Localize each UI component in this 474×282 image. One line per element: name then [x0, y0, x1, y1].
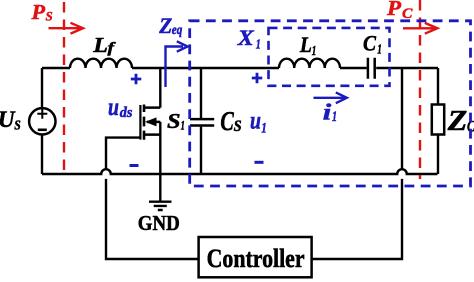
wire S1 drain lead	[159, 68, 161, 108]
svg-text:Controller: Controller	[207, 244, 305, 273]
svg-text:P: P	[386, 0, 401, 20]
label S1	[167, 109, 185, 133]
resistor ZC (load)	[432, 105, 444, 135]
capacitor C1	[368, 58, 375, 79]
svg-text:1: 1	[332, 109, 337, 125]
svg-text:u: u	[250, 107, 261, 134]
node uds plus	[131, 74, 142, 85]
label US	[0, 107, 21, 133]
arrow Zeq looking-right	[166, 41, 188, 87]
label C1	[363, 31, 382, 58]
label Zeq	[158, 13, 182, 38]
label CS	[220, 106, 241, 136]
arrow PS power flow	[49, 23, 84, 34]
label L1	[299, 32, 316, 59]
wire top main horizontal	[42, 67, 438, 69]
svg-text:S: S	[46, 8, 53, 23]
svg-text:X: X	[237, 25, 256, 50]
svg-text:eq: eq	[172, 23, 183, 38]
svg-text:ds: ds	[120, 105, 133, 121]
svg-text:i: i	[323, 100, 332, 125]
svg-text:C: C	[363, 31, 377, 56]
inductor Lf	[70, 59, 132, 68]
capacitor CS	[190, 68, 214, 174]
wire S1 gate lead	[106, 138, 140, 170]
label uds	[108, 94, 133, 121]
svg-text:GND: GND	[138, 211, 180, 235]
ground	[149, 202, 172, 210]
label X1	[237, 25, 261, 53]
label ZC	[447, 106, 474, 137]
wire bottom main horizontal with hops	[42, 169, 438, 174]
wire right vertical (Zc branch)	[437, 68, 439, 174]
svg-text:C: C	[220, 106, 234, 136]
wire controller left	[106, 179, 199, 259]
svg-text:1: 1	[256, 38, 261, 53]
svg-text:1: 1	[261, 120, 267, 136]
node u1 minus	[255, 161, 264, 164]
node PS boundary (red dashed line)	[63, 2, 65, 171]
svg-text:S: S	[14, 118, 20, 133]
svg-text:S: S	[167, 109, 181, 133]
svg-text:1: 1	[377, 43, 382, 58]
transistor S1 (MOSFET)	[140, 105, 160, 140]
svg-text:1: 1	[181, 117, 185, 132]
transistor S1 body arrow	[145, 117, 157, 126]
label i1	[323, 100, 337, 126]
svg-text:L: L	[299, 32, 312, 57]
wire left vertical from source	[41, 68, 43, 174]
wire S1 source lead to bottom wire and ground	[159, 122, 161, 201]
svg-text:Z: Z	[447, 106, 468, 137]
node X1 resonant-branch box (blue dashed inner)	[269, 28, 390, 86]
label Lf	[92, 33, 116, 57]
node uds minus	[130, 164, 139, 167]
node Zeq equivalent-impedance box (blue dashed outer)	[190, 21, 471, 186]
svg-text:1: 1	[312, 44, 317, 59]
arrow PC power flow	[403, 23, 437, 34]
svg-text:P: P	[30, 0, 45, 24]
svg-text:Z: Z	[158, 13, 172, 38]
svg-text:S: S	[234, 118, 242, 135]
node u1 plus	[252, 73, 262, 84]
wire controller right (sense from output node)	[312, 68, 402, 259]
arrow i1 current	[314, 92, 347, 103]
label u1	[250, 107, 267, 136]
node PC boundary (red dashed line)	[419, 0, 421, 179]
voltage source US	[29, 108, 55, 134]
label PC	[386, 0, 414, 22]
label PS	[30, 0, 52, 24]
svg-text:L: L	[92, 33, 108, 57]
controller box	[199, 237, 312, 277]
svg-text:u: u	[108, 94, 119, 121]
inductor L1	[279, 59, 340, 68]
